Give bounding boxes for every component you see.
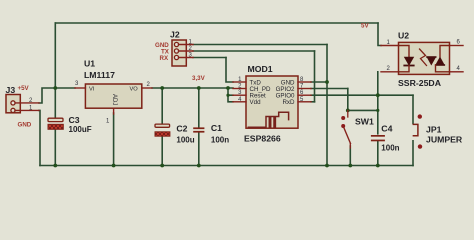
capacitor C3 100uF (48, 115, 92, 134)
left pin stubs (233, 81, 246, 83)
svg-text:5V: 5V (361, 23, 369, 30)
wire SW1 node across to C4 top (348, 109, 378, 111)
right pin stubs (298, 81, 311, 83)
relay U2 SSR-25DA (381, 31, 463, 89)
regulator U1 LM1117 (75, 59, 152, 125)
switch SW1 (341, 110, 374, 148)
junction dots (53, 80, 379, 167)
wire ground rail (40, 165, 413, 167)
capacitor C2 100u (155, 124, 195, 145)
pin 1 ADJ stub (113, 108, 115, 114)
wire MOD1 pin5 RxD stub (311, 101, 315, 103)
svg-text:C3: C3 (69, 115, 80, 125)
svg-text:JP1: JP1 (426, 124, 442, 134)
wire 3.3V rail from U1 VO to MOD1 Vdd tree (152, 87, 233, 89)
capacitor C4 100n (371, 124, 400, 153)
svg-text:3,3V: 3,3V (192, 75, 206, 82)
svg-text:C1: C1 (211, 123, 222, 133)
wire MOD1 pin8 GND to x327 vertical (311, 81, 327, 83)
pin 2 VO stub (142, 87, 152, 89)
svg-text:ADJ: ADJ (111, 94, 117, 105)
svg-text:LM1117: LM1117 (84, 70, 115, 80)
wire U2 pin2 vertical down through C4 node (377, 72, 379, 134)
wire U1 ADJ pin down to ground rail (113, 113, 115, 166)
pin 2 stub (381, 71, 399, 73)
jumper JP1 (413, 114, 463, 148)
wire GND vertical at x327 (326, 45, 328, 166)
wire ground rail right end up to JP1 pin 2 (412, 141, 414, 166)
svg-text:VI: VI (89, 87, 95, 93)
wire TX vertical down to MOD1 RxD (314, 51, 316, 102)
wire +5V top rail left vertical down to VI feed (54, 23, 56, 88)
wire C3 vertical upper (54, 88, 56, 118)
svg-text:100uF: 100uF (69, 125, 92, 134)
pin 3 stub (179, 57, 194, 59)
svg-text:J3: J3 (6, 85, 16, 95)
wire GPIO2 vertical down to SW1 (347, 89, 349, 111)
svg-text:100n: 100n (211, 136, 229, 145)
wire MOD1 pin6 GPIO0 long run (311, 94, 413, 96)
wire C3 vertical lower (54, 129, 56, 165)
wire C2 vertical upper (161, 88, 163, 124)
svg-text:SW1: SW1 (355, 117, 374, 127)
pin 4 stub (450, 71, 464, 73)
wire J2 pin1 GND to vertical (193, 44, 327, 46)
wire C1 vertical upper (198, 88, 200, 127)
svg-text:U2: U2 (398, 31, 409, 41)
svg-text:GND: GND (18, 122, 32, 129)
wire SW1 bottom to ground rail (349, 146, 351, 166)
svg-text:ESP8266: ESP8266 (244, 134, 281, 144)
svg-text:Vdd: Vdd (250, 99, 262, 106)
wire GPIO0 drop to JP1 pin1 (412, 95, 414, 123)
pin 2 dot (418, 144, 422, 148)
pin 1 dot (418, 114, 422, 118)
svg-text:U1: U1 (84, 59, 95, 69)
pin 1 stub (381, 45, 399, 47)
connector J2 (155, 30, 193, 67)
svg-text:RxD: RxD (282, 99, 295, 106)
capacitor C1 100n (193, 123, 229, 144)
wire J2 pin2 TX (193, 50, 315, 52)
wire C4 bottom to ground rail (377, 141, 379, 165)
svg-text:100n: 100n (381, 143, 399, 152)
svg-text:MOD1: MOD1 (248, 64, 273, 74)
wire J3 pin2 to +5V row (39, 88, 75, 103)
wire stub to MOD1 pin 3 (228, 94, 233, 96)
wire RX vertical down to MOD1 TxD (226, 58, 233, 83)
svg-text:JUMPER: JUMPER (426, 134, 463, 144)
antenna squiggle (248, 112, 288, 127)
LED inside (399, 46, 410, 58)
connector J3 (6, 85, 40, 129)
triac triangles (440, 46, 450, 58)
svg-text:VO: VO (130, 87, 139, 93)
pin 1 stub (15, 109, 39, 111)
wire C2 vertical lower (161, 136, 163, 165)
pin 6 stub (450, 45, 464, 47)
svg-text:RX: RX (160, 55, 169, 62)
bracket (413, 124, 418, 135)
pin 2 stub (15, 102, 39, 104)
svg-text:C2: C2 (176, 124, 187, 134)
zigzag (420, 49, 427, 66)
module MOD1 ESP8266 (233, 64, 311, 144)
pin 3 VI stub (75, 87, 85, 89)
pin 2 stub (179, 50, 194, 52)
lever (344, 128, 351, 144)
svg-text:J2: J2 (170, 30, 180, 40)
svg-text:SSR-25DA: SSR-25DA (398, 78, 442, 88)
pin stub from node to contact (347, 110, 349, 117)
wire C1 vertical lower (198, 133, 200, 166)
wire 3.3V drop to MOD1 pins 3 and 4 (228, 88, 233, 102)
wire J3 pin1 down to ground rail (39, 110, 40, 165)
wire +5V top rail horizontal (55, 22, 378, 24)
svg-text:+5V: +5V (18, 85, 30, 92)
wire MOD1 pin7 GPIO2 over to switch (311, 88, 348, 90)
wire J2 pin3 RX (193, 57, 226, 59)
wire 5V drop to U2 pin 1 (378, 23, 381, 46)
svg-text:C4: C4 (381, 124, 392, 134)
pin 1 stub (179, 44, 194, 46)
svg-text:100u: 100u (176, 136, 194, 145)
